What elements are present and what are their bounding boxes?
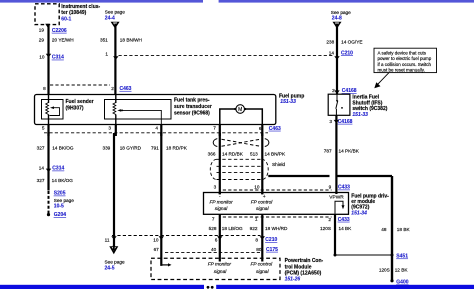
wire W1b: sender pin 5 to ground G204 bbox=[47, 133, 50, 216]
svg-text:18 BN/WH: 18 BN/WH bbox=[120, 37, 142, 42]
connector C4168 pin 2 bbox=[332, 88, 357, 94]
svg-text:48: 48 bbox=[381, 227, 387, 232]
svg-text:14: 14 bbox=[329, 50, 335, 55]
svg-text:S205: S205 bbox=[54, 191, 66, 197]
splice S205 and ground G204 labels bbox=[54, 191, 74, 219]
wire label 29 / 20 YE/WH bbox=[39, 38, 74, 43]
svg-text:14 BK/OG: 14 BK/OG bbox=[52, 146, 74, 151]
svg-text:14 BK/OG: 14 BK/OG bbox=[52, 178, 74, 183]
splice S451 bbox=[334, 254, 409, 260]
svg-text:6: 6 bbox=[215, 237, 218, 242]
svg-text:signal: signal bbox=[256, 269, 269, 275]
inertia fuel shutoff switch box bbox=[328, 94, 350, 115]
svg-text:1: 1 bbox=[255, 216, 258, 221]
transducer label bbox=[174, 97, 212, 116]
wire WA: FPDM pin 7 to PCM pin 40 bbox=[219, 214, 221, 261]
svg-text:ter (10849): ter (10849) bbox=[61, 10, 86, 16]
fuel tank unit box bbox=[35, 95, 276, 125]
svg-text:C433: C433 bbox=[338, 217, 350, 223]
transducer resistor bbox=[113, 95, 116, 125]
svg-text:See page: See page bbox=[331, 10, 351, 15]
svg-text:151-26: 151-26 bbox=[285, 277, 301, 283]
svg-text:60-1: 60-1 bbox=[61, 17, 71, 23]
wire W4: transducer pin 4 to PCM pin 67 bbox=[160, 133, 162, 266]
svg-text:C314: C314 bbox=[52, 55, 64, 61]
wire label 327 / 14 BK/OG (lower) bbox=[37, 178, 74, 183]
svg-text:G204: G204 bbox=[54, 212, 66, 218]
svg-text:2: 2 bbox=[328, 217, 331, 222]
wire W2: from see page 24-4 down to pin 2 of C463 bbox=[114, 24, 116, 95]
svg-text:351: 351 bbox=[100, 37, 108, 42]
svg-text:3: 3 bbox=[214, 184, 217, 189]
connector C463 dashed line (top) pins 8,2 bbox=[43, 85, 132, 92]
svg-text:151-33: 151-33 bbox=[352, 112, 368, 118]
wire W5: pump feed (pin 7) to FPDM pin 3 bbox=[219, 133, 221, 194]
connector C4168 pin 3 bbox=[329, 119, 352, 125]
svg-text:18 GY/RD: 18 GY/RD bbox=[120, 146, 142, 151]
svg-text:See page: See page bbox=[54, 198, 74, 203]
wire label 791 / 18 RD/PK bbox=[151, 145, 188, 150]
svg-text:24-5: 24-5 bbox=[105, 265, 115, 271]
wire W3: transducer pin 3 to PCM page ref bbox=[113, 133, 115, 250]
svg-text:C210: C210 bbox=[265, 237, 277, 243]
wire WB: FPDM pin 1 to PCM pin 80 bbox=[261, 214, 263, 261]
svg-text:366: 366 bbox=[208, 152, 216, 157]
svg-text:2: 2 bbox=[111, 86, 114, 91]
svg-text:12 BK: 12 BK bbox=[395, 268, 409, 273]
connector C433 dashed line (bottom) pins 7,1,2 bbox=[212, 216, 350, 222]
svg-text:(9H307): (9H307) bbox=[66, 106, 84, 112]
svg-text:24-8: 24-8 bbox=[332, 16, 342, 22]
fuel pump motor M bbox=[220, 105, 262, 125]
svg-text:C433: C433 bbox=[338, 185, 350, 191]
svg-text:6: 6 bbox=[259, 126, 262, 131]
PCM dashed box bbox=[151, 258, 280, 279]
fuel pump driver module box bbox=[204, 193, 349, 215]
svg-text:11: 11 bbox=[105, 237, 110, 242]
svg-text:3: 3 bbox=[329, 119, 332, 124]
twisted pair symbol bbox=[213, 139, 269, 147]
svg-text:14 PK/BK: 14 PK/BK bbox=[339, 148, 360, 153]
wire label 120S / 12 BK bbox=[379, 268, 408, 273]
svg-text:C4168: C4168 bbox=[338, 119, 353, 125]
connector C433 dashed line (top) pins 3,10,9 bbox=[214, 184, 351, 190]
svg-text:sensor (9C968): sensor (9C968) bbox=[174, 110, 210, 116]
svg-text:S451: S451 bbox=[396, 254, 408, 260]
svg-text:327: 327 bbox=[37, 146, 45, 151]
connector C210 dashed line (top, pin 1 and pin 14) bbox=[105, 52, 334, 60]
svg-text:14 BK: 14 BK bbox=[339, 226, 353, 231]
wire label 120S / 14 BK bbox=[320, 226, 352, 231]
svg-text:14 BN/PK: 14 BN/PK bbox=[265, 152, 286, 157]
connector C210 pin 14 bbox=[329, 50, 353, 59]
See page 24-8 reference bbox=[331, 10, 351, 29]
W3 see page 24-5 arrow bbox=[105, 246, 125, 272]
svg-text:Instrument clus-: Instrument clus- bbox=[61, 4, 100, 10]
instrument cluster label bbox=[61, 4, 100, 23]
svg-text:signal: signal bbox=[215, 206, 228, 212]
wire label 238 / 14 OG/YE bbox=[326, 39, 362, 44]
svg-text:238: 238 bbox=[326, 39, 334, 44]
svg-text:20 YE/WH: 20 YE/WH bbox=[52, 38, 74, 43]
svg-text:See page: See page bbox=[105, 9, 125, 14]
svg-text:14: 14 bbox=[39, 165, 45, 170]
FPDM VPWR sub-box with arrow bbox=[335, 201, 345, 214]
safety note box bbox=[374, 48, 437, 72]
svg-text:18 LB/OG: 18 LB/OG bbox=[222, 226, 243, 231]
svg-text:791: 791 bbox=[151, 145, 159, 150]
svg-text:sure transducer: sure transducer bbox=[174, 104, 212, 110]
note arrow to IFS switch bbox=[374, 73, 389, 89]
fuel sender label bbox=[66, 99, 94, 112]
PCM label bbox=[285, 258, 324, 282]
svg-text:80: 80 bbox=[256, 247, 262, 252]
wire W7: see page 24-8 to IFS switch bbox=[336, 24, 338, 95]
svg-text:5: 5 bbox=[42, 126, 45, 131]
svg-text:power to electric fuel pump: power to electric fuel pump bbox=[378, 56, 432, 61]
svg-text:7: 7 bbox=[213, 126, 216, 131]
instrument cluster dashed box bbox=[35, 4, 59, 27]
svg-text:G400: G400 bbox=[396, 280, 408, 286]
svg-text:8: 8 bbox=[43, 86, 46, 91]
svg-text:513: 513 bbox=[250, 152, 258, 157]
wire label 48 / 18 BK bbox=[381, 227, 410, 232]
svg-text:C2206: C2206 bbox=[52, 28, 67, 34]
fuel sender inner box bbox=[42, 100, 64, 120]
svg-text:9: 9 bbox=[329, 185, 332, 190]
wire label 922 / 18 WH/RD bbox=[250, 226, 288, 231]
svg-text:40: 40 bbox=[211, 247, 217, 252]
svg-text:1: 1 bbox=[105, 52, 108, 57]
svg-text:67: 67 bbox=[154, 247, 160, 252]
svg-text:18 RD/PK: 18 RD/PK bbox=[166, 145, 188, 150]
wire labels 366 14 RD/BK and 513 14 BN/PK bbox=[208, 152, 286, 157]
wire W6: pump feed (pin 6) to FPDM pin 10 bbox=[261, 133, 263, 194]
svg-text:528: 528 bbox=[209, 226, 217, 231]
wire WC: FPDM pin 2 to splice S451 bbox=[334, 214, 336, 255]
svg-text:signal: signal bbox=[256, 206, 269, 212]
svg-text:FP control: FP control bbox=[251, 200, 274, 206]
wire label 351 / 18 BN/WH bbox=[100, 37, 142, 42]
svg-text:19: 19 bbox=[39, 28, 45, 33]
svg-text:8: 8 bbox=[255, 237, 258, 242]
shield symbol bbox=[210, 159, 285, 179]
svg-text:+: + bbox=[263, 194, 266, 200]
connector C463 dashed line (bottom) pins 5,3,4,7,6 bbox=[42, 125, 281, 137]
connector C210 dashed line (bottom) pins 11,10,6,8 bbox=[105, 236, 278, 244]
svg-text:18 WH/RD: 18 WH/RD bbox=[265, 226, 288, 231]
svg-text:if a collision occurs. Switch: if a collision occurs. Switch bbox=[378, 62, 432, 67]
wire label 339 / 18 GY/RD bbox=[102, 146, 141, 151]
See page 24-4 reference bbox=[105, 9, 125, 28]
fuel pump driver module label bbox=[351, 194, 389, 217]
svg-text:must be reset manually.: must be reset manually. bbox=[378, 68, 425, 73]
svg-text:10: 10 bbox=[39, 55, 45, 60]
top page bar bbox=[0, 0, 474, 3]
svg-text:M: M bbox=[238, 107, 242, 113]
svg-text:120S: 120S bbox=[320, 226, 331, 231]
svg-text:VPWR: VPWR bbox=[329, 195, 344, 201]
fuel pump label bbox=[279, 93, 304, 105]
svg-text:7: 7 bbox=[212, 216, 215, 221]
fuel sender resistor (variable) bbox=[46, 95, 60, 125]
W4 arrow inside PCM bbox=[161, 263, 171, 266]
wire W1: instrument cluster to fuel sender pin 8 bbox=[47, 24, 49, 95]
svg-text:327: 327 bbox=[37, 178, 45, 183]
connector C314 pin 10 (triangle marker) bbox=[39, 54, 64, 61]
wire W7b: IFS switch to FPDM pin 9 bbox=[335, 115, 337, 194]
svg-text:C210: C210 bbox=[341, 50, 353, 56]
svg-text:14 OG/YE: 14 OG/YE bbox=[341, 39, 362, 44]
svg-text:24-4: 24-4 bbox=[105, 16, 115, 22]
svg-text:14 RD/BK: 14 RD/BK bbox=[222, 152, 244, 157]
svg-text:3: 3 bbox=[108, 126, 111, 131]
svg-text:922: 922 bbox=[250, 226, 258, 231]
connector C2206 pin 19 bbox=[39, 28, 67, 34]
wire label 787 / 14 PK/BK bbox=[324, 148, 360, 153]
svg-text:151-33: 151-33 bbox=[280, 99, 296, 105]
svg-text:C463: C463 bbox=[269, 126, 281, 132]
svg-text:787: 787 bbox=[324, 148, 332, 153]
svg-text:18 BK: 18 BK bbox=[397, 227, 411, 232]
ground G400 bbox=[390, 279, 408, 285]
svg-text:Powertrain Con-: Powertrain Con- bbox=[285, 258, 324, 264]
svg-text:signal: signal bbox=[214, 269, 227, 275]
svg-text:FP monitor: FP monitor bbox=[210, 200, 234, 206]
svg-text:C314: C314 bbox=[52, 166, 64, 172]
bottom page bar bbox=[0, 285, 474, 289]
svg-text:10-5: 10-5 bbox=[54, 203, 64, 209]
connector C314 pin 14 bbox=[39, 165, 65, 172]
wire label 528 / 18 LB/OG bbox=[209, 226, 243, 231]
svg-text:Shield: Shield bbox=[272, 162, 285, 167]
svg-text:29: 29 bbox=[39, 38, 45, 43]
svg-text:Fuel sender: Fuel sender bbox=[66, 99, 94, 105]
svg-text:120S: 120S bbox=[379, 268, 390, 273]
transducer wiper arrow to pin 4 bbox=[117, 109, 161, 124]
svg-text:4: 4 bbox=[155, 125, 158, 130]
svg-text:-: - bbox=[219, 194, 221, 200]
svg-text:Fuel tank pres-: Fuel tank pres- bbox=[174, 97, 210, 103]
svg-text:10: 10 bbox=[254, 184, 260, 189]
svg-text:FP monitor: FP monitor bbox=[208, 262, 232, 268]
svg-text:A safety device that cuts: A safety device that cuts bbox=[378, 50, 427, 55]
svg-text:C175: C175 bbox=[266, 247, 278, 253]
svg-text:FP control: FP control bbox=[251, 262, 274, 268]
svg-text:See page: See page bbox=[105, 259, 125, 264]
svg-text:C463: C463 bbox=[120, 86, 132, 92]
PCM interior labels bbox=[208, 262, 273, 275]
wire label 327 / 14 BK/OG (upper) bbox=[37, 146, 74, 151]
IFS switch label bbox=[352, 95, 387, 118]
svg-text:10: 10 bbox=[153, 237, 159, 242]
svg-text:339: 339 bbox=[102, 146, 110, 151]
connector C175 dashed line pins 67,40,80 bbox=[154, 247, 279, 253]
svg-text:151-34: 151-34 bbox=[351, 210, 367, 216]
fuel tank pressure transducer inner box bbox=[105, 100, 172, 120]
FPDM interior labels bbox=[210, 193, 345, 213]
shield drain wire to S451 bbox=[268, 176, 392, 281]
svg-text:C4168: C4168 bbox=[342, 88, 357, 94]
